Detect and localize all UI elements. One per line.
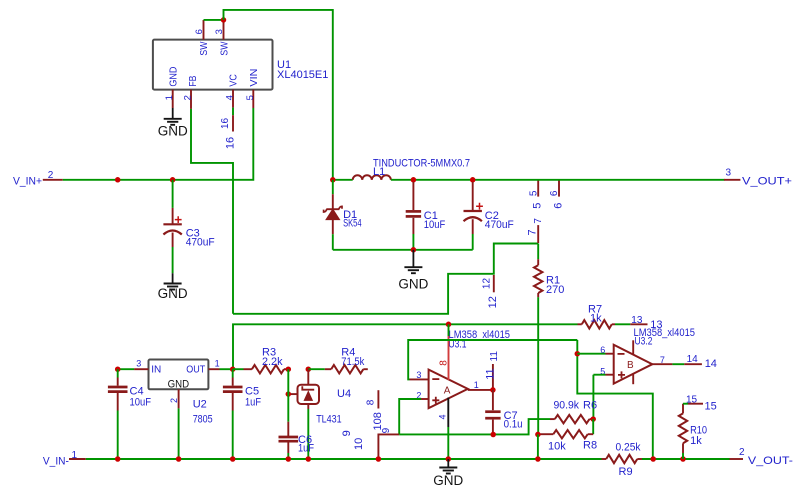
wire C5 bottom to rail	[232, 411, 234, 460]
svg-text:1: 1	[72, 450, 78, 461]
svg-text:2: 2	[739, 447, 745, 458]
wire V_IN+ rail to U1 VIN	[63, 108, 254, 180]
svg-text:U4: U4	[337, 388, 351, 400]
svg-text:0.1u: 0.1u	[504, 419, 523, 431]
svg-text:4: 4	[225, 95, 236, 100]
svg-text:1: 1	[215, 359, 220, 369]
svg-text:10k: 10k	[548, 440, 566, 452]
svg-text:2: 2	[169, 398, 179, 403]
op-amp B output pin 7 stub	[652, 363, 672, 365]
svg-text:470uF: 470uF	[186, 236, 215, 248]
svg-text:9: 9	[381, 427, 392, 433]
capacitor C1 10uF	[412, 182, 414, 210]
svg-text:1: 1	[474, 380, 479, 390]
wire B pin 5 down to R6/R8	[592, 375, 594, 419]
svg-text:0.25k: 0.25k	[616, 442, 641, 454]
wire C4 node to U2 in	[118, 368, 134, 370]
ground under C1 bus	[412, 250, 414, 267]
junction C2 top	[470, 177, 476, 183]
junction op-amp A output / C7	[490, 387, 496, 393]
ground symbol on rail	[447, 459, 449, 468]
wire R10 to port 15	[683, 403, 688, 405]
junction port 10	[376, 456, 382, 462]
wire R7 to port 13	[615, 323, 630, 325]
wire U2 out	[220, 368, 233, 370]
svg-text:6: 6	[552, 203, 564, 209]
svg-text:11: 11	[484, 368, 496, 379]
svg-text:V_OUT+: V_OUT+	[742, 175, 792, 187]
wire V_OUT+ rail	[391, 179, 725, 181]
junction 5V / op-amp A V+	[446, 322, 452, 328]
port V_OUT- pin stub	[730, 458, 744, 460]
svg-text:A: A	[444, 385, 451, 396]
svg-text:U3.2: U3.2	[635, 335, 653, 347]
U1 pin 5 VIN stub	[252, 90, 254, 108]
wire SW node down to inductor	[224, 10, 333, 180]
ground under U1 pin 1	[172, 108, 174, 119]
port 13 stub	[630, 323, 647, 325]
wire SW pin6 to pin3	[204, 19, 224, 21]
svg-text:2.2k: 2.2k	[262, 356, 283, 368]
svg-text:470uF: 470uF	[485, 219, 514, 231]
svg-text:14: 14	[705, 358, 717, 370]
U2 pin 3 stub	[134, 368, 148, 370]
svg-text:1k: 1k	[590, 313, 602, 325]
U1 pin 1 GND stub	[172, 90, 174, 108]
capacitor C2 470uF (polarized)	[472, 182, 474, 211]
svg-text:5: 5	[245, 95, 256, 100]
svg-text:5: 5	[528, 190, 539, 196]
port 9 / port 10 stubs	[378, 434, 399, 459]
junction V_IN+ / C3	[170, 177, 176, 183]
junction ground bus	[411, 247, 417, 253]
U2 pin 1 stub	[208, 368, 219, 370]
junction U2 gnd	[176, 456, 182, 462]
op-amp A pin 2 stub	[421, 398, 429, 400]
op-amp B pin 6 stub	[606, 353, 614, 355]
svg-text:3: 3	[416, 370, 421, 380]
resistor R6 90.9k	[550, 418, 555, 420]
svg-text:15: 15	[686, 395, 698, 406]
svg-text:U2: U2	[193, 398, 207, 410]
svg-text:12: 12	[487, 296, 499, 308]
port 11 stub	[492, 364, 494, 390]
regulator U2 7805 body	[149, 360, 209, 390]
svg-text:GND: GND	[168, 379, 190, 391]
wire R1 bottom down	[537, 297, 539, 434]
svg-text:8: 8	[372, 412, 384, 418]
junction C4 top	[115, 366, 121, 372]
svg-text:R9: R9	[619, 466, 633, 478]
junction R6 right / B pin5	[590, 416, 596, 422]
svg-text:10uF: 10uF	[424, 219, 446, 231]
svg-text:TINDUCTOR-5MMX0.7: TINDUCTOR-5MMX0.7	[373, 158, 470, 170]
wire R10 to rail	[682, 453, 684, 459]
wire C3 to ground	[172, 247, 174, 273]
svg-text:VC: VC	[229, 74, 240, 87]
wire V_OUT- rail	[642, 458, 730, 460]
U4 cathode stub	[307, 369, 309, 385]
svg-text:VIN: VIN	[249, 69, 260, 87]
svg-text:270: 270	[546, 284, 564, 296]
U1 pin 2 FB stub	[190, 90, 192, 109]
svg-text:IN: IN	[151, 365, 161, 376]
junction C1 top	[411, 177, 417, 183]
wire VC to port 16	[232, 108, 234, 116]
wire C6 to rail	[287, 453, 289, 459]
svg-text:8: 8	[439, 360, 450, 366]
svg-text:10uF: 10uF	[130, 397, 152, 409]
wire ground rail	[86, 458, 602, 460]
capacitor C6 1uF	[287, 422, 289, 436]
wire B output to port 14	[672, 363, 684, 365]
U4 anode stub	[307, 404, 309, 409]
port V_IN- pin stub	[69, 458, 86, 460]
wire D1/C1/C2 ground bus	[333, 249, 473, 251]
wire SW node to L1	[333, 179, 353, 181]
wire pin 4 to ground rail	[447, 427, 449, 459]
wire U2 gnd pin to rail	[178, 408, 180, 459]
wire C1 bottom	[412, 234, 414, 250]
junction U4 anode	[306, 456, 312, 462]
junction op-amp gnd	[446, 456, 452, 462]
svg-text:OUT: OUT	[186, 365, 205, 376]
svg-text:B: B	[627, 360, 634, 371]
resistor R1 270	[537, 259, 539, 265]
wire to B pin 6	[577, 353, 605, 355]
port 14 stub	[684, 363, 702, 365]
junction R4/U4 cathode	[306, 366, 312, 372]
wire to B pin 5	[593, 374, 605, 376]
svg-text:GND: GND	[398, 277, 428, 292]
port 8 stub	[377, 390, 379, 408]
svg-text:GND: GND	[168, 67, 179, 87]
U2 pin 2 stub	[178, 389, 180, 408]
svg-text:GND: GND	[158, 123, 188, 138]
svg-text:FB: FB	[188, 75, 199, 86]
op-amp U3.2 LM358 B	[614, 345, 653, 384]
op-amp A pin 3 stub	[410, 378, 429, 380]
svg-text:L1: L1	[373, 166, 385, 178]
svg-text:7: 7	[527, 229, 539, 235]
op-amp A V- pin 4	[447, 398, 449, 427]
wire 5V rail to op-amps and R7	[233, 324, 578, 369]
port 15 stub	[688, 403, 703, 405]
wire R3 node down to C6	[287, 369, 289, 422]
junction R10 bottom	[680, 456, 686, 462]
wire R8 node to ground rail	[537, 434, 539, 459]
svg-text:SW: SW	[199, 41, 210, 55]
junction B pin 6	[575, 351, 581, 357]
junction SW pins	[221, 17, 227, 23]
svg-text:GND: GND	[158, 286, 188, 301]
svg-text:8: 8	[366, 399, 377, 405]
wire C4 bottom to rail	[117, 411, 119, 460]
resistor R7 1k	[578, 323, 582, 325]
junction R1 bottom / R8 left	[535, 432, 541, 438]
inductor L1	[353, 175, 391, 180]
U4 ref stub	[288, 393, 297, 395]
svg-text:4: 4	[438, 414, 448, 419]
wire	[308, 368, 325, 370]
wire R6 to R8 right	[592, 419, 594, 434]
svg-text:7805: 7805	[193, 414, 213, 426]
resistor R8 10k	[588, 433, 594, 435]
svg-text:SK54: SK54	[343, 218, 362, 230]
svg-text:7: 7	[533, 218, 544, 224]
svg-text:GND: GND	[433, 473, 463, 488]
svg-text:2: 2	[183, 95, 194, 100]
wire to C3	[172, 180, 174, 208]
svg-text:6: 6	[549, 190, 560, 196]
junction V_IN+ / C4 branch	[115, 177, 121, 183]
junction U2 out / C5 / R3 / FB	[230, 366, 236, 372]
op-amp B pin 5 stub	[606, 374, 614, 376]
junction R8 branch	[535, 456, 541, 462]
junction C7 bottom / pin2 wire	[490, 432, 496, 438]
junction R3/R4/U4 ref	[286, 366, 292, 372]
resistor R9 0.25k	[602, 458, 607, 460]
port V_OUT+ pin stub	[724, 179, 740, 181]
svg-text:R6: R6	[583, 400, 597, 412]
svg-text:1uF: 1uF	[245, 397, 261, 409]
svg-text:TL431: TL431	[316, 414, 342, 426]
IC U1 XL4015E1 body	[153, 40, 273, 90]
svg-text:10: 10	[353, 438, 365, 450]
junction C6 bottom	[286, 456, 292, 462]
junction SW/L1/D1	[330, 177, 336, 183]
svg-text:3: 3	[214, 29, 225, 34]
svg-text:3: 3	[726, 167, 732, 178]
junction U4 ref / C6 branch	[286, 391, 292, 397]
wire B feedback to output rail	[577, 340, 653, 459]
wire 5V to pin 8	[448, 324, 450, 336]
port 12 stub	[493, 275, 495, 292]
U1 pin 4 VC stub	[232, 90, 234, 108]
svg-text:12: 12	[481, 278, 492, 290]
capacitor C7 0.1u	[492, 390, 494, 410]
wire op-amp A non-inverting input	[399, 399, 421, 434]
svg-text:V_OUT-: V_OUT-	[748, 455, 793, 467]
U1 pin 6 SW stub	[203, 20, 205, 40]
port V_IN+ pin stub	[43, 179, 63, 181]
wire C2 bottom	[472, 234, 474, 250]
svg-text:6: 6	[194, 29, 205, 34]
wire SW node to D1	[332, 180, 334, 194]
junction C4 bottom	[115, 456, 121, 462]
svg-text:16: 16	[225, 137, 237, 149]
op-amp A output pin 1 stub	[468, 389, 493, 391]
wire U4 anode to rail	[307, 409, 309, 459]
svg-text:1uF: 1uF	[298, 443, 314, 455]
wire	[117, 369, 119, 377]
svg-text:90.9k: 90.9k	[554, 400, 580, 412]
svg-text:5: 5	[532, 203, 544, 209]
ground under C3	[172, 273, 174, 283]
svg-text:1: 1	[164, 95, 175, 100]
wire	[232, 369, 234, 377]
svg-text:9: 9	[341, 430, 353, 436]
wire port7 to R1	[537, 244, 539, 260]
svg-text:R8: R8	[583, 439, 597, 451]
port 5 stub	[537, 180, 539, 197]
svg-text:16: 16	[220, 117, 231, 129]
svg-text:1k: 1k	[690, 435, 702, 447]
wire FB down and across	[191, 109, 233, 314]
svg-text:15: 15	[705, 401, 717, 413]
svg-text:V_IN-: V_IN-	[43, 456, 69, 468]
junction R9 right / feedback	[650, 456, 656, 462]
svg-text:71.5k: 71.5k	[341, 356, 364, 368]
svg-text:XL4015E1: XL4015E1	[277, 69, 328, 81]
op-amp U3.1 LM358 A	[429, 370, 468, 409]
junction C5 bottom	[230, 456, 236, 462]
wire pin2 node to C7 and R6	[399, 419, 550, 434]
port 16 stub	[232, 115, 234, 131]
resistor R10 1k	[682, 404, 684, 414]
svg-text:2: 2	[48, 170, 54, 181]
svg-text:14: 14	[687, 354, 699, 365]
shunt reference U4 TL431	[298, 385, 320, 404]
op-amp B power stubs	[632, 340, 634, 354]
svg-text:3: 3	[136, 359, 141, 369]
wire op-amp A inverting input loop	[408, 340, 577, 379]
wire	[233, 368, 244, 370]
wire FB net to R1 top	[233, 244, 538, 314]
port 7 stub	[537, 225, 539, 243]
svg-text:SW: SW	[220, 41, 231, 55]
svg-text:V_IN+: V_IN+	[13, 176, 42, 188]
U1 pin 3 SW stub	[223, 20, 225, 40]
capacitor C3 470uF	[172, 208, 174, 224]
svg-text:13: 13	[631, 315, 643, 326]
svg-text:11: 11	[489, 351, 500, 362]
wire D1 to bottom bus	[332, 234, 334, 250]
port 6 stub	[558, 180, 560, 197]
svg-text:7: 7	[660, 355, 665, 365]
